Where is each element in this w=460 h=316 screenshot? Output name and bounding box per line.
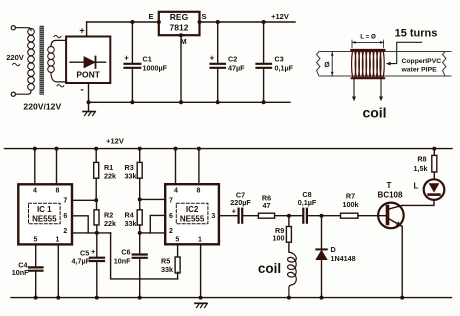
capacitor C5 — [90, 233, 104, 298]
capacitor C8 — [303, 209, 307, 223]
arrow from 15 turns to coil — [386, 42, 422, 65]
svg-text:8: 8 — [197, 187, 201, 194]
wire: IC1 pin2 line — [72, 232, 111, 234]
capacitor C7 — [239, 209, 243, 223]
voltage regulator REG 7812 — [159, 12, 200, 35]
junction (139.7,199.4) — [138, 197, 142, 201]
svg-text:4,7µF: 4,7µF — [72, 257, 91, 266]
junction (217.7,22) — [216, 20, 220, 24]
svg-text:IC 1: IC 1 — [37, 205, 52, 214]
junction (132.4,22) — [130, 20, 134, 24]
resistor R2 — [94, 200, 99, 233]
junction (139.7,297.6) — [138, 296, 142, 300]
resistor R6 — [258, 213, 274, 218]
junction (321.5,215.7) — [320, 214, 324, 218]
svg-text:47µF: 47µF — [228, 64, 245, 73]
IC2 pin labels — [169, 187, 215, 243]
svg-text:L = Ø: L = Ø — [360, 34, 376, 41]
svg-text:S: S — [201, 12, 206, 21]
junction (132.4,102.3) — [130, 100, 134, 104]
dimension L = diameter — [352, 40, 384, 48]
svg-text:NE555: NE555 — [180, 215, 205, 224]
resistor R7 — [341, 213, 358, 218]
wire: IC2 pin5 down to R5 — [177, 244, 179, 257]
svg-text:22k: 22k — [104, 172, 116, 181]
wire: mains top terminal to primary — [11, 26, 31, 31]
resistor R4 — [137, 199, 142, 233]
svg-text:15 turns: 15 turns — [395, 28, 438, 40]
svg-text:7: 7 — [63, 198, 67, 205]
diode D 1N4148 — [316, 216, 327, 298]
diode symbol inside PONT — [70, 57, 106, 68]
wire: secondary top lead to bridge — [51, 40, 66, 46]
wire: bottom rail of top section — [89, 101, 291, 103]
wire: C8 to R7 with diode junction — [308, 215, 341, 217]
svg-text:REG: REG — [170, 12, 189, 22]
svg-text:NE555: NE555 — [32, 215, 57, 224]
capacitor C4 — [29, 267, 43, 297]
capacitor C6 — [133, 233, 147, 298]
junction (217.7,102.3) — [216, 100, 220, 104]
bridge rectifier PONT box — [66, 37, 110, 84]
svg-text:BC108: BC108 — [378, 191, 403, 200]
IC1 NE555 box — [18, 184, 72, 244]
junction (175.5,148.6) — [174, 147, 178, 151]
transistor T BC108 — [378, 203, 404, 229]
svg-text:10nF: 10nF — [114, 257, 131, 266]
coil windings on pipe — [352, 50, 385, 79]
svg-text:+: + — [124, 54, 129, 63]
wire: regulator M to ground rail — [180, 35, 182, 103]
junction (56.5,148.6) — [55, 147, 59, 151]
svg-text:L: L — [414, 181, 419, 190]
junction (321.5,297.6) — [320, 296, 324, 300]
capacitor C2 — [211, 22, 226, 102]
svg-text:7: 7 — [169, 198, 173, 205]
svg-text:8: 8 — [56, 187, 60, 194]
dimension pipe diameter — [331, 52, 334, 76]
transformer secondary winding — [48, 46, 55, 72]
wire: IC2 pin8 to rail — [198, 149, 200, 185]
ground symbol (bottom section) — [195, 303, 208, 307]
transformer core — [40, 26, 44, 95]
wire: IC1 pin6 bracket — [72, 216, 88, 233]
junction (181,102.3) — [179, 100, 183, 104]
svg-text:+12V: +12V — [271, 12, 289, 21]
junction (200.6,297.6) — [199, 296, 203, 300]
wire: IC2 pin3 to C7 — [219, 215, 238, 217]
wire: IC2 pin1 to ground rail — [200, 244, 202, 297]
svg-text:220V: 220V — [6, 53, 24, 62]
svg-text:2: 2 — [63, 228, 67, 235]
IC1 pin labels — [33, 187, 67, 243]
resistor R3 — [137, 149, 142, 200]
IC2 NE555 box — [165, 184, 219, 244]
svg-text:coil: coil — [258, 261, 281, 276]
junction (434.3,148.6) — [432, 147, 436, 151]
inductor coil (detector) — [288, 252, 297, 298]
svg-text:2: 2 — [169, 228, 173, 235]
wire: IC2 pin7 to R3/R4 junction — [140, 198, 166, 200]
junction (288.9,297.6) — [287, 296, 291, 300]
junction: regulator E pin — [157, 20, 161, 24]
junction (58.3,297.6) — [56, 296, 60, 300]
wire: top +12V rail — [87, 21, 295, 23]
svg-text:0,1µF: 0,1µF — [298, 198, 317, 207]
junction (96.2,200.3) — [94, 198, 98, 202]
svg-text:+: + — [210, 54, 215, 63]
wire: IC1 pin1 to ground rail — [57, 244, 59, 297]
junction (263.6,22) — [262, 20, 266, 24]
junction (96.8,297.6) — [95, 296, 99, 300]
svg-text:5: 5 — [175, 236, 179, 243]
wire: mains bottom terminal to primary — [11, 91, 31, 96]
svg-text:D: D — [331, 245, 336, 254]
resistor R5 — [175, 257, 180, 279]
svg-text:33k: 33k — [125, 219, 137, 228]
label ~ secondary bottom — [57, 85, 64, 87]
wire: bridge + up to top rail — [86, 22, 88, 37]
svg-text:+: + — [232, 207, 237, 216]
svg-text:T: T — [387, 181, 392, 190]
svg-text:+12V: +12V — [106, 137, 124, 146]
junction (35.7,297.6) — [34, 296, 38, 300]
svg-text:4: 4 — [174, 187, 178, 194]
junction (139.7,232.9) — [138, 231, 142, 235]
svg-text:1: 1 — [56, 236, 60, 243]
svg-text:1N4148: 1N4148 — [331, 254, 356, 263]
svg-text:+: + — [91, 247, 96, 256]
svg-text:coil: coil — [362, 105, 386, 121]
svg-text:7812: 7812 — [170, 23, 189, 33]
svg-text:33k: 33k — [125, 172, 137, 181]
svg-text:Ø: Ø — [324, 62, 330, 69]
svg-text:47: 47 — [263, 201, 271, 210]
svg-text:+: + — [79, 26, 84, 36]
junction (96.2,148.6) — [94, 147, 98, 151]
resistor R1 — [94, 149, 99, 201]
svg-text:C3: C3 — [275, 55, 284, 64]
junction (263.6,102.3) — [262, 100, 266, 104]
junction: regulator M pin — [179, 33, 183, 37]
svg-text:100k: 100k — [343, 200, 359, 209]
svg-text:1,5k: 1,5k — [414, 164, 428, 173]
svg-text:0,1µF: 0,1µF — [275, 64, 294, 73]
wire: IC1 pin4 to rail — [34, 149, 36, 185]
svg-text:220V/12V: 220V/12V — [23, 102, 61, 112]
wire: IC1 pin7 to R1/R2 junction — [72, 199, 96, 201]
wire: R7 to transistor base — [358, 215, 386, 217]
wire: bridge - down to ground rail — [88, 83, 90, 112]
svg-text:1: 1 — [198, 236, 202, 243]
wire: R6 to C8 with junction — [275, 215, 303, 217]
svg-text:C2: C2 — [228, 55, 237, 64]
wire: IC2 pin6 bracket — [150, 215, 165, 233]
svg-text:CopperlPVC: CopperlPVC — [402, 58, 442, 65]
svg-text:-: - — [80, 85, 83, 96]
junction (402.2,297.6) — [400, 296, 404, 300]
+12V rail (bottom section) — [4, 148, 452, 150]
svg-text:E: E — [148, 12, 153, 21]
wire: secondary bottom lead to bridge — [51, 72, 66, 82]
wire: IC2 pin4 to rail — [175, 149, 177, 185]
svg-text:22k: 22k — [104, 219, 116, 228]
pipe outline — [317, 52, 452, 77]
ground rail (bottom section) — [11, 297, 452, 299]
junction (198.9,148.6) — [197, 147, 201, 151]
svg-text:100: 100 — [273, 234, 285, 243]
svg-text:10nF: 10nF — [12, 268, 29, 277]
junction bridge-/rail — [87, 100, 91, 104]
svg-text:4: 4 — [33, 187, 37, 194]
wire: IC2 pin2 line — [140, 232, 166, 234]
wire: C7 to R6 — [243, 215, 258, 217]
junction: regulator S pin — [198, 20, 202, 24]
wire: collector to LED — [402, 200, 434, 205]
LED L — [424, 179, 445, 200]
svg-text:3: 3 — [211, 213, 215, 220]
svg-text:1000µF: 1000µF — [143, 64, 168, 73]
capacitor C3 — [257, 22, 272, 102]
coil leads with arrowheads — [352, 80, 383, 102]
transformer primary winding — [28, 28, 35, 90]
label ~ secondary top — [54, 35, 61, 37]
svg-text:R8: R8 — [417, 155, 426, 164]
junction (288.9,215.7) — [287, 214, 291, 218]
junction (34.8,148.6) — [33, 147, 37, 151]
junction (139.7,148.6) — [138, 147, 142, 151]
svg-text:5: 5 — [34, 236, 38, 243]
ground symbol (top section) — [83, 112, 96, 116]
wire: IC1 pin5 down — [35, 244, 37, 267]
svg-text:6: 6 — [63, 213, 67, 220]
svg-text:6: 6 — [169, 213, 173, 220]
svg-text:220µF: 220µF — [230, 198, 251, 207]
wire: emitter to ground rail — [401, 226, 403, 297]
resistor R8 — [432, 149, 437, 180]
svg-text:C1: C1 — [143, 55, 152, 64]
junction (96.8,232.9) — [95, 231, 99, 235]
svg-text:IC2: IC2 — [186, 205, 199, 214]
capacitor C1 — [125, 22, 141, 102]
svg-text:C6: C6 — [121, 248, 130, 257]
svg-text:PONT: PONT — [76, 70, 100, 80]
svg-text:33k: 33k — [161, 265, 173, 274]
wire: feedback drop to R5 — [111, 233, 178, 279]
wire: IC1 pin8 to rail — [56, 149, 58, 185]
svg-text:water PIPE: water PIPE — [401, 67, 438, 74]
resistor R9 — [286, 216, 291, 252]
label ~ primary — [13, 63, 20, 66]
